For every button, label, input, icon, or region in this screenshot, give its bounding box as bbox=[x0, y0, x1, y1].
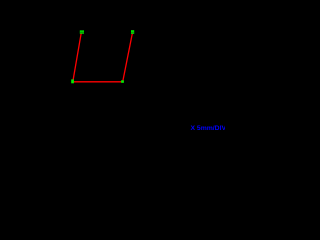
wire right edge D-B bbox=[123, 34, 132, 81]
node B marker (top-right vertex) bbox=[131, 30, 134, 34]
node A marker (top-left vertex) bbox=[80, 30, 84, 33]
wire left edge A-C bbox=[73, 33, 81, 80]
wire bottom edge C-D bbox=[73, 81, 123, 83]
node D marker (bottom-right vertex) bbox=[121, 80, 124, 83]
background canvas bbox=[0, 0, 225, 135]
node C marker (bottom-left vertex) bbox=[71, 79, 74, 83]
svg-text:X 5mm/DIV: X 5mm/DIV bbox=[191, 125, 226, 132]
